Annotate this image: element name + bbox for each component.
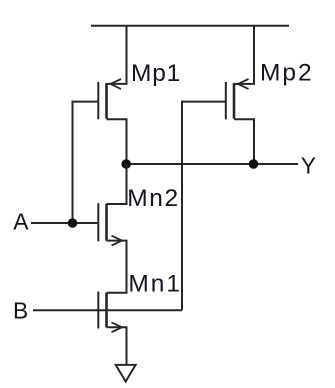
wire Mp1 source to VDD — [126, 26, 128, 84]
wire Mp2 drain to node Y — [253, 119, 255, 164]
wire Mp2 gate to B (vertical) — [181, 101, 183, 311]
wire node Y horizontal — [127, 163, 299, 165]
transistor Mp1 — [98, 79, 127, 119]
svg-text:B: B — [13, 297, 28, 323]
junction dot A — [68, 218, 78, 228]
wire Mn1 source to ground — [126, 327, 128, 365]
wire A to PMOS gate (vertical) — [72, 101, 74, 223]
wire Mp1 drain to node Y — [126, 119, 128, 164]
svg-text:Mp1: Mp1 — [131, 60, 181, 87]
wire input B to Mp2 gate — [33, 309, 182, 311]
wire input A — [31, 222, 98, 224]
wire Mp2 source to VDD — [253, 26, 255, 84]
svg-text:A: A — [13, 208, 29, 234]
transistor Mn2 — [98, 203, 127, 245]
transistor Mp2 — [226, 79, 255, 119]
wire Mn2 drain to node Y — [126, 164, 128, 204]
svg-text:Y: Y — [301, 153, 316, 179]
wire Mp1 gate lead — [73, 101, 99, 103]
VDD rail wire — [91, 25, 289, 27]
wire Mp2 gate lead — [182, 101, 226, 103]
wire Mn2 source to Mn1 drain — [126, 241, 128, 293]
svg-text:Mp2: Mp2 — [260, 60, 314, 87]
junction dot Mp2 drain / Y — [249, 159, 259, 169]
transistor Mn1 — [98, 292, 127, 333]
junction dot Mp1 drain / Y — [121, 159, 131, 169]
svg-text:Mn1: Mn1 — [128, 271, 182, 298]
ground — [116, 365, 136, 382]
svg-text:Mn2: Mn2 — [127, 185, 179, 212]
